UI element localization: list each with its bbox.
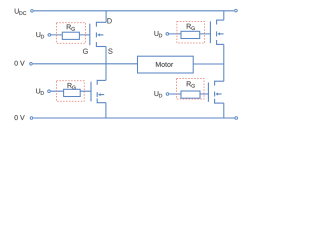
wire: U_DC positive supply rail (top) xyxy=(34,10,234,12)
transistor Q4 low-side right N-MOSFET xyxy=(208,81,223,104)
label U_D driver voltage of Q3 xyxy=(36,89,44,95)
label 0 V middle rail xyxy=(14,61,24,66)
node: U_D3 gate drive terminal xyxy=(48,90,51,93)
pin label D drain of Q1 xyxy=(107,18,111,23)
label U_D driver voltage of Q4 xyxy=(154,91,162,97)
label 0 V bottom rail xyxy=(14,115,24,120)
value label RG of Q2 gate resistor xyxy=(187,24,195,30)
pin label G gate of Q1 xyxy=(83,49,88,54)
value label RG of Q3 gate resistor xyxy=(68,83,76,89)
wire: U_D3 terminal to Q3 gate xyxy=(51,90,91,92)
wire: Q2 drain to U_DC rail xyxy=(223,11,225,20)
node: U_DC supply terminal top left xyxy=(31,10,34,13)
dashed gate-driver outline around RG of Q2 xyxy=(177,22,205,44)
node: terminal bottom right xyxy=(235,117,238,120)
resistor RG gate resistor of Q2 xyxy=(181,31,200,38)
node: 0 V terminal bottom left xyxy=(30,117,33,120)
wire: U_D2 terminal to Q2 gate xyxy=(169,33,210,35)
wire: bottom 0 V rail xyxy=(33,117,234,119)
transistor Q2 high-side right N-MOSFET xyxy=(210,20,223,45)
dashed gate-driver outline around RG of Q1 xyxy=(56,23,85,44)
wire: motor right terminal to right midpoint node xyxy=(193,63,224,65)
transistor Q1 high-side left N-MOSFET xyxy=(90,22,106,47)
value label RG of Q1 gate resistor xyxy=(67,24,75,30)
node: U_D4 gate drive terminal xyxy=(166,93,169,96)
transistor Q3 low-side left N-MOSFET xyxy=(91,80,106,103)
resistor RG gate resistor of Q4 xyxy=(181,91,200,98)
motor M load box xyxy=(138,56,194,73)
node: U_D2 gate drive terminal xyxy=(166,33,169,36)
value label RG of Q4 gate resistor xyxy=(187,81,195,87)
node: 0 V terminal middle left xyxy=(30,63,33,66)
wire: 0 V terminal to left midpoint node and motor left terminal xyxy=(33,63,138,65)
wire: Q3 source down to bottom 0 V rail xyxy=(105,103,107,118)
resistor RG gate resistor of Q1 xyxy=(62,32,79,39)
wire: Q1 drain to U_DC rail xyxy=(105,11,107,22)
resistor RG gate resistor of Q3 xyxy=(64,89,81,96)
label U_DC supply voltage xyxy=(15,9,27,15)
dashed gate-driver outline around RG of Q4 xyxy=(177,79,205,100)
node: supply terminal top right xyxy=(235,9,238,12)
wire: U_D1 terminal to Q1 gate xyxy=(51,34,90,36)
label U_D driver voltage of Q2 xyxy=(154,31,162,37)
wire: left midpoint vertical, Q1 source to Q3 drain xyxy=(105,47,107,81)
pin label S source of Q1 xyxy=(108,49,112,54)
dashed gate-driver outline around RG of Q3 xyxy=(56,81,84,101)
wire: U_D4 terminal to Q4 gate xyxy=(169,93,208,95)
wire: Q4 source down to bottom 0 V rail xyxy=(223,103,225,118)
wire: right midpoint vertical, Q2 source to Q4 drain xyxy=(223,44,225,81)
label Motor xyxy=(156,62,173,67)
node: U_D1 gate drive terminal xyxy=(48,34,51,37)
label U_D driver voltage of Q1 xyxy=(36,32,44,38)
